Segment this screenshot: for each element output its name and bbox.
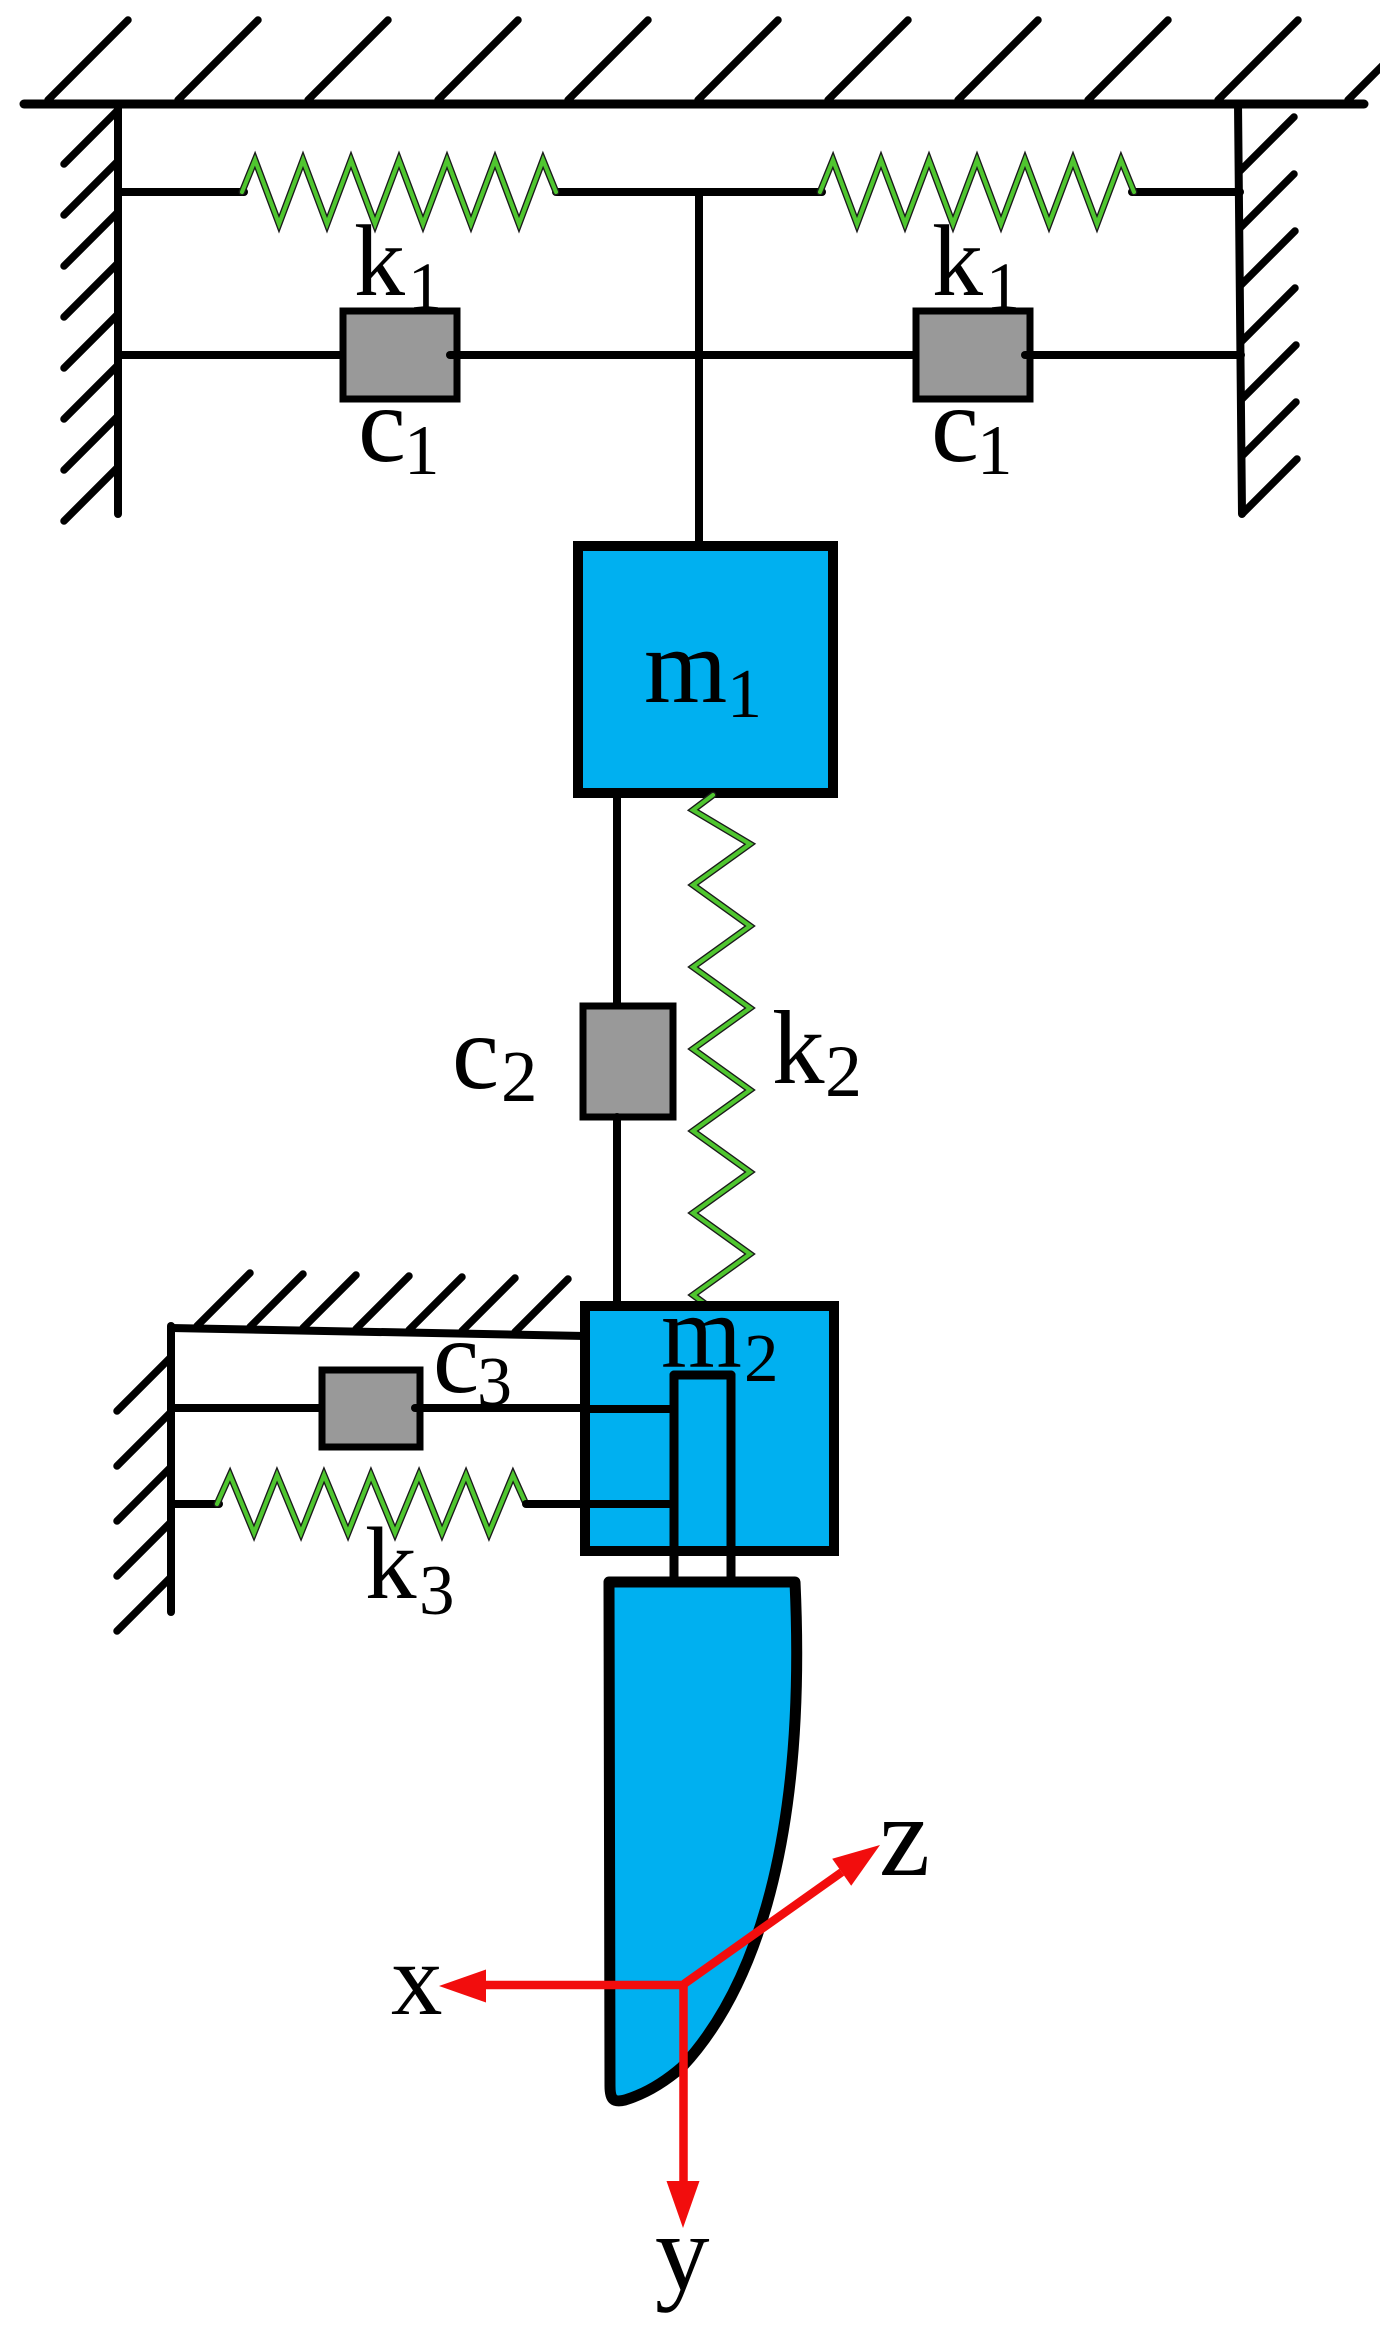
wire k3 inside m2 [585, 1500, 674, 1508]
wire c3 inside m2 [585, 1405, 674, 1413]
spring k1 right [820, 160, 1134, 224]
svg-text:2: 2 [501, 1036, 538, 1117]
svg-text:c: c [931, 366, 979, 485]
svg-text:1: 1 [727, 656, 762, 733]
lower-left ground hatching [197, 1273, 568, 1332]
left wall hatching [64, 110, 118, 521]
wire damper row left [118, 351, 350, 359]
lower-left wall hatching [117, 1357, 171, 1631]
axis y [667, 1984, 700, 2228]
wire spring row left [118, 188, 244, 196]
wire c3 right [415, 1404, 585, 1412]
svg-text:2: 2 [825, 1031, 862, 1113]
svg-text:x: x [391, 1923, 443, 2037]
wire damper row middle [450, 351, 920, 359]
svg-text:m: m [644, 608, 727, 726]
wire k3 right stub [526, 1500, 585, 1508]
lower-left wall [167, 1326, 175, 1612]
svg-text:c: c [452, 994, 499, 1111]
svg-text:k: k [354, 205, 405, 318]
svg-text:c: c [358, 366, 406, 485]
wire damper rod c2 upper [613, 793, 621, 1010]
axis x [439, 1970, 684, 2003]
wire c3 left [171, 1404, 330, 1412]
tool holder slot in m2 [674, 1375, 731, 1582]
spring k3 [217, 1475, 526, 1533]
svg-text:k: k [365, 1507, 417, 1621]
svg-text:3: 3 [477, 1344, 512, 1421]
svg-text:c: c [433, 1300, 479, 1415]
wire damper row right [1025, 351, 1241, 359]
svg-text:y: y [655, 2192, 710, 2313]
svg-text:k: k [772, 989, 825, 1106]
ceiling [24, 100, 1364, 109]
wire damper rod c2 lower [613, 1117, 621, 1306]
wire k3 left stub [171, 1500, 219, 1508]
damper c2 [583, 1006, 673, 1117]
right wall [1238, 104, 1242, 514]
damper c1 left [343, 311, 457, 399]
svg-text:2: 2 [744, 1320, 779, 1396]
svg-text:z: z [879, 1773, 930, 1900]
wire center vertical to m1 [695, 192, 703, 548]
ceiling hatching [48, 20, 1380, 100]
svg-text:1: 1 [977, 412, 1013, 490]
axis z [684, 1845, 880, 1984]
spring k2 [693, 795, 750, 1306]
spring k1 left [242, 160, 556, 224]
svg-text:k: k [932, 205, 983, 318]
svg-text:3: 3 [419, 1552, 455, 1630]
wire spring row middle [556, 188, 822, 196]
mass m1 [578, 546, 833, 793]
damper c1 right [916, 311, 1030, 399]
damper c3 [322, 1370, 420, 1447]
mass m2 [585, 1306, 834, 1551]
left wall [114, 104, 122, 514]
wire spring row right [1132, 188, 1240, 196]
lower-left ground line [171, 1328, 585, 1336]
right wall hatching [1240, 117, 1297, 513]
svg-text:1: 1 [404, 412, 440, 490]
tool blade [609, 1582, 797, 2101]
